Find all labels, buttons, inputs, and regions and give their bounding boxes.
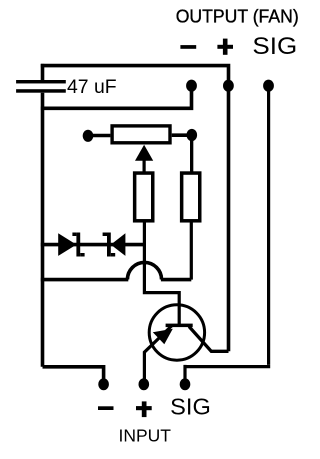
- svg-text:SIG: SIG: [252, 33, 297, 60]
- svg-text:OUTPUT (FAN): OUTPUT (FAN): [176, 6, 299, 27]
- svg-text:SIG: SIG: [170, 394, 211, 420]
- svg-text:47 uF: 47 uF: [67, 76, 117, 98]
- svg-text:INPUT: INPUT: [119, 426, 172, 446]
